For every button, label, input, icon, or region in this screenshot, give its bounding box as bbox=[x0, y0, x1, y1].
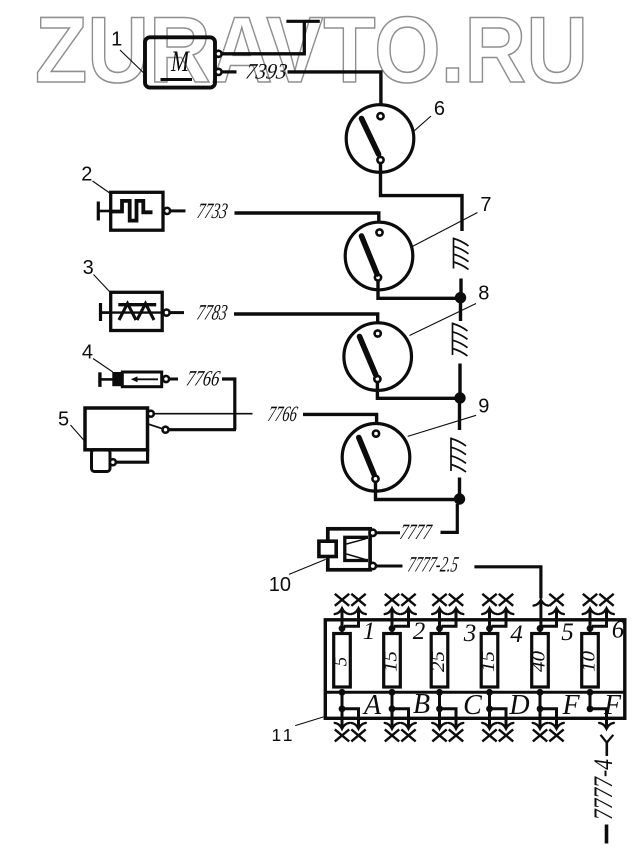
wire fuse F1 top left bbox=[341, 609, 344, 627]
arrow connector, fuse F1 top right bbox=[351, 608, 366, 614]
arrow connector, fuse F1 top left bbox=[335, 608, 350, 614]
arrow connector, fuse F1 bottom left bbox=[335, 723, 350, 729]
external wire marker X, fuse F2 top left bbox=[385, 594, 399, 606]
wire fuse F6 top left bbox=[589, 609, 592, 627]
component 3 left terminal bar bbox=[99, 303, 102, 321]
chassis ground symbol 1 bbox=[454, 238, 469, 270]
svg-text:1: 1 bbox=[111, 29, 122, 51]
external wire marker X, fuse F6 top right bbox=[599, 594, 613, 606]
wire from switch 8 to junction B bbox=[377, 382, 455, 398]
stub junction to fuse F6 bbox=[589, 628, 592, 634]
switch 8 lever bbox=[360, 337, 376, 376]
sensor U3 (component 3) box bbox=[111, 292, 163, 330]
external wire marker X, fuse F1 bottom left bbox=[335, 729, 349, 741]
stub junction to fuse F3 bbox=[438, 628, 441, 634]
lower junction fuse F3 bbox=[436, 705, 443, 712]
arrow connector, fuse F6 top right bbox=[599, 608, 614, 614]
svg-text:1 1: 1 1 bbox=[272, 725, 293, 745]
arrow connector, fuse F5 bottom left bbox=[533, 723, 548, 729]
wire 7777-2.5 to fuse box bbox=[474, 567, 541, 598]
external wire marker X, fuse F4 bottom left bbox=[482, 729, 496, 741]
junction above fuse F4 bbox=[486, 625, 493, 632]
arrow connector on fuse F5 left wire bbox=[534, 600, 549, 606]
fuse box (component 11) outline bbox=[325, 620, 625, 719]
wire 7777-4 stem bbox=[605, 743, 608, 756]
switch 6 bottom contact bbox=[377, 157, 383, 163]
svg-text:7: 7 bbox=[480, 194, 491, 216]
wire fuse F3 bottom drop bbox=[438, 692, 441, 709]
wire 7777-2.5 entering fuse F5 top left bbox=[539, 597, 542, 601]
relay/flasher U2 (component 2) box bbox=[111, 192, 163, 230]
external wire marker X, fuse F3 bottom left bbox=[432, 729, 446, 741]
switch 7 bottom contact bbox=[375, 274, 381, 280]
arrow connector, fuse F4 top left bbox=[482, 608, 497, 614]
arrow connector, fuse F4 top right bbox=[499, 608, 514, 614]
external wire marker X, fuse F4 top right bbox=[499, 594, 513, 606]
svg-text:5: 5 bbox=[58, 408, 69, 430]
svg-text:3: 3 bbox=[83, 257, 94, 279]
svg-text:6: 6 bbox=[612, 617, 625, 644]
leader line for label 8 bbox=[410, 304, 477, 336]
svg-text:10: 10 bbox=[269, 574, 291, 596]
component 5 lower box bbox=[92, 450, 111, 472]
external wire marker X, fuse F6 top left bbox=[583, 594, 597, 606]
external wire marker X, fuse F5 bottom left bbox=[533, 729, 547, 741]
stub junction to fuse F4 bbox=[488, 628, 491, 634]
svg-text:1: 1 bbox=[363, 618, 376, 645]
external wire marker X, fuse F2 bottom left bbox=[385, 729, 399, 741]
component 4 left lead bbox=[100, 378, 113, 381]
motor terminal pin top bbox=[215, 51, 221, 57]
wire 7393 from motor bottom terminal bbox=[222, 70, 237, 73]
component 5 terminal pin 2 bbox=[163, 427, 169, 433]
arrow connector, fuse F2 top right bbox=[401, 608, 416, 614]
component 2 heating element meander bbox=[111, 201, 153, 221]
svg-text:7777-2.5: 7777-2.5 bbox=[406, 551, 460, 576]
wire fuse F2 top left bbox=[391, 609, 394, 627]
svg-text:7777: 7777 bbox=[398, 519, 434, 544]
external wire marker X, fuse F1 top right bbox=[351, 594, 365, 606]
arrow connector, fuse F6 top left bbox=[583, 608, 598, 614]
component 4 left terminal bar bbox=[98, 372, 101, 387]
T terminal bar (node) bbox=[286, 20, 319, 23]
leader line for label 1 bbox=[120, 50, 144, 74]
wire fuse F3 bottom right (step) bbox=[440, 709, 457, 729]
wire fuse F1 bottom left bbox=[341, 709, 344, 729]
wire 7766 from component 4 down to component 5 output bbox=[222, 379, 235, 430]
wire fuse F4 top left bbox=[488, 609, 491, 627]
fuse box bottom bus wire bbox=[327, 691, 624, 694]
svg-text:15: 15 bbox=[478, 651, 499, 672]
svg-text:2: 2 bbox=[81, 164, 92, 186]
wire fuse F6 bottom drop bbox=[589, 692, 592, 709]
component 3 left lead bbox=[101, 311, 111, 314]
component 10 terminal pin 1 bbox=[370, 530, 376, 536]
wire fuse F5 bottom left bbox=[539, 709, 542, 729]
junction below fuse F2 on bus bbox=[389, 689, 396, 696]
component 2 left terminal bar bbox=[97, 202, 100, 221]
fuse F5 body, rating 40A bbox=[529, 634, 550, 688]
component 5 terminal pin 3 bbox=[110, 459, 116, 465]
svg-text:7733: 7733 bbox=[195, 198, 229, 223]
wire fuse F2 bottom left bbox=[391, 709, 394, 729]
wire fuse F6 bottom right (step) bbox=[590, 709, 607, 729]
junction node A bbox=[455, 292, 466, 303]
wire from switch 9 to junction C bbox=[376, 482, 455, 500]
svg-text:7766: 7766 bbox=[185, 366, 222, 391]
wire 7777-2.5 lead from component 10 bbox=[376, 565, 402, 568]
leader line for label 9 bbox=[408, 415, 476, 436]
chassis ground symbol 3 bbox=[451, 438, 466, 473]
switch 8 top contact bbox=[375, 330, 381, 336]
external wire marker X, fuse F3 bottom right bbox=[449, 729, 463, 741]
wire fuse F3 top left bbox=[438, 609, 441, 627]
wire stub to junction B bbox=[458, 364, 461, 394]
svg-text:ZURAVTO.RU: ZURAVTO.RU bbox=[35, 0, 588, 102]
wire loop from terminal 3 to main box bbox=[116, 450, 148, 462]
terminal 2 link bbox=[148, 424, 163, 429]
arrow connector, fuse F3 bottom right bbox=[449, 723, 464, 729]
junction node C bbox=[454, 493, 465, 504]
arrow connector, fuse F2 bottom right bbox=[401, 723, 416, 729]
junction below fuse F5 on bus bbox=[537, 689, 544, 696]
motor U1 (component 1) bbox=[145, 37, 215, 87]
fuse F4 body, rating 15A bbox=[478, 634, 499, 688]
component 4 output lead bbox=[169, 378, 178, 381]
switch 7 lever bbox=[362, 236, 378, 274]
leader line for label 7 bbox=[413, 213, 478, 247]
svg-text:4: 4 bbox=[82, 341, 93, 363]
wire stub from junction A bbox=[459, 302, 462, 321]
junction below fuse F1 on bus bbox=[339, 689, 346, 696]
leader line for label 3 bbox=[94, 275, 111, 293]
svg-text:C: C bbox=[463, 690, 482, 721]
arrow connector, fuse F2 bottom left bbox=[385, 723, 400, 729]
svg-text:7777-4: 7777-4 bbox=[589, 759, 618, 820]
junction above fuse F6 bbox=[587, 625, 594, 632]
thin wire from terminal 1 bbox=[154, 413, 253, 415]
wire 7733 to switch 7 bbox=[235, 213, 379, 230]
wire 7777 lead to component 10 bbox=[376, 531, 400, 534]
arrow connector, fuse F2 top left bbox=[385, 608, 400, 614]
svg-text:M: M bbox=[170, 45, 190, 78]
component 2 output lead bbox=[170, 209, 185, 212]
leader line for label 2 bbox=[93, 181, 111, 194]
wire stub to junction A bbox=[459, 279, 462, 295]
svg-text:5: 5 bbox=[331, 657, 352, 667]
svg-text:15: 15 bbox=[381, 651, 402, 672]
fuse F1 body, rating 5A bbox=[331, 634, 352, 688]
wire fuse F4 top right (step) bbox=[492, 609, 507, 627]
leader line for label 6 bbox=[414, 116, 432, 132]
junction above fuse F3 bbox=[436, 625, 443, 632]
arrow connector, fuse F3 bottom left bbox=[432, 723, 447, 729]
svg-text:25: 25 bbox=[428, 651, 449, 672]
component 2 left lead bbox=[98, 210, 110, 213]
external wire marker X, fuse F5 bottom right bbox=[549, 729, 563, 741]
switch 9 bottom contact bbox=[372, 476, 378, 482]
wire fuse F3 top right (step) bbox=[442, 609, 457, 627]
motor terminal pin bottom bbox=[215, 69, 221, 75]
component 3 right terminal pin bbox=[163, 310, 169, 316]
wire fuse F3 bottom left bbox=[438, 709, 441, 729]
svg-text:A: A bbox=[362, 690, 382, 721]
wire fuse F1 top right (step) bbox=[344, 609, 359, 627]
switch S6 (component 6) body bbox=[346, 105, 414, 173]
chassis ground symbol 2 bbox=[453, 323, 468, 357]
switch S9 (component 9) body bbox=[342, 424, 410, 492]
stub junction to fuse F2 bbox=[391, 628, 394, 634]
connector U10 (component 10) body bbox=[319, 529, 370, 570]
junction above fuse F1 bbox=[339, 625, 346, 632]
wire fuse F2 bottom right (step) bbox=[392, 709, 409, 729]
component 10 terminal pin 2 bbox=[370, 563, 376, 569]
svg-text:D: D bbox=[508, 690, 529, 721]
switch 6 top contact bbox=[377, 113, 383, 119]
external wire marker X, fuse F2 top right bbox=[401, 594, 415, 606]
lower junction fuse F5 bbox=[537, 705, 544, 712]
switch 6 lever bbox=[362, 119, 379, 155]
component 5 terminal pin 1 bbox=[148, 411, 154, 417]
external wire marker X, fuse F4 bottom right bbox=[499, 729, 513, 741]
wire from junction C down to wire 7777 bbox=[441, 504, 458, 532]
lower junction fuse F6 bbox=[587, 705, 594, 712]
junction below fuse F3 on bus bbox=[436, 689, 443, 696]
svg-text:7393: 7393 bbox=[244, 59, 289, 84]
svg-text:9: 9 bbox=[478, 396, 489, 418]
junction below fuse F6 on bus bbox=[587, 689, 594, 696]
junction above fuse F2 bbox=[389, 625, 396, 632]
junction below fuse F4 on bus bbox=[486, 689, 493, 696]
wire from terminal 2 to component 4 wire bbox=[169, 428, 236, 431]
svg-text:10: 10 bbox=[579, 650, 600, 672]
switch 8 bottom contact bbox=[374, 376, 380, 382]
svg-text:7783: 7783 bbox=[195, 300, 229, 325]
wire 7777-4 continuation dash bbox=[605, 825, 609, 844]
svg-text:2: 2 bbox=[413, 618, 426, 645]
wire 7393 continues to switch 6 bbox=[288, 72, 381, 113]
external wire marker X, fuse F2 bottom right bbox=[401, 729, 415, 741]
wire stub to junction C bbox=[458, 478, 461, 495]
junction node B bbox=[454, 392, 465, 403]
wire fuse F1 bottom right (step) bbox=[342, 709, 359, 729]
component 3 output lead bbox=[170, 311, 184, 314]
external wire marker X, fuse F1 top left bbox=[335, 594, 349, 606]
component 4 right terminal pin bbox=[163, 376, 169, 382]
wire fuse F4 bottom left bbox=[488, 709, 491, 729]
relay U5 (component 5) main box bbox=[85, 408, 148, 450]
component 2 right terminal pin bbox=[164, 208, 170, 214]
svg-text:8: 8 bbox=[478, 282, 489, 304]
component 3 element symbol bbox=[101, 304, 164, 321]
switch S8 (component 8) body bbox=[344, 323, 412, 391]
svg-text:3: 3 bbox=[463, 620, 477, 647]
stub junction to fuse F1 bbox=[341, 628, 344, 634]
stub junction to fuse F5 bbox=[539, 628, 542, 634]
leader line for label 10 bbox=[289, 559, 326, 574]
svg-text:6: 6 bbox=[434, 98, 445, 120]
wire 7766 to switch 9 bbox=[303, 414, 377, 430]
fuse/lighter U4 (component 4) bbox=[112, 372, 161, 387]
switch S7 (component 7) body bbox=[345, 222, 413, 290]
wire fuse F2 bottom drop bbox=[391, 692, 394, 709]
wire stub from junction B bbox=[458, 403, 461, 430]
wire from motor top terminal bbox=[222, 21, 305, 54]
svg-text:40: 40 bbox=[529, 650, 550, 672]
svg-text:F: F bbox=[561, 690, 580, 721]
leader line for label 11 bbox=[295, 717, 323, 726]
wire 7783 to switch 8 bbox=[234, 314, 378, 330]
svg-text:B: B bbox=[413, 689, 430, 720]
arrow connector, fuse F1 bottom right bbox=[351, 723, 366, 729]
leader line for label 4 bbox=[93, 359, 113, 373]
external wire marker X, fuse F1 bottom right bbox=[351, 729, 365, 741]
wire fuse F5 top right (step) bbox=[542, 609, 557, 627]
arrow connector, fuse F4 bottom right bbox=[499, 723, 514, 729]
fuse F2 body, rating 15A bbox=[381, 634, 402, 688]
svg-text:5: 5 bbox=[561, 619, 574, 646]
wire fuse F6 top right (step) bbox=[592, 609, 607, 627]
svg-text:4: 4 bbox=[510, 621, 523, 648]
fuse F3 body, rating 25A bbox=[428, 634, 449, 688]
arrow connector, fuse F3 top right bbox=[449, 608, 464, 614]
lower junction fuse F4 bbox=[486, 705, 493, 712]
arrow connector, fuse F6 bottom right bbox=[599, 723, 614, 729]
leader line for label 5 bbox=[71, 425, 86, 442]
switch 9 top contact bbox=[373, 431, 379, 437]
svg-text:F: F bbox=[603, 690, 622, 721]
wire fuse F4 bottom drop bbox=[488, 692, 491, 709]
wire from switch 7 to junction A bbox=[378, 281, 456, 299]
junction above fuse F5 bbox=[537, 625, 544, 632]
external wire marker X, fuse F3 top left bbox=[432, 594, 446, 606]
external wire marker X, fuse F4 top left bbox=[482, 594, 496, 606]
wire fuse F1 bottom drop bbox=[341, 692, 344, 709]
wire from switch 6 to chassis bbox=[381, 163, 463, 231]
lower junction fuse F1 bbox=[339, 705, 346, 712]
external wire marker X, fuse F3 top right bbox=[449, 594, 463, 606]
external wire marker X, fuse F5 top right bbox=[549, 594, 563, 606]
arrow connector, fuse F4 bottom left bbox=[482, 723, 497, 729]
wire fuse F5 bottom drop bbox=[539, 692, 542, 709]
arrow connector, fuse F5 bottom right bbox=[549, 723, 564, 729]
wire fuse F4 bottom right (step) bbox=[490, 709, 507, 729]
wire 7777-4 fork connector bbox=[601, 735, 614, 743]
arrow connector, fuse F3 top left bbox=[432, 608, 447, 614]
wire fuse F5 bottom right (step) bbox=[540, 709, 557, 729]
fuse F6 body, rating 10A bbox=[579, 634, 600, 688]
lower junction fuse F2 bbox=[389, 705, 396, 712]
switch 7 top contact bbox=[376, 229, 382, 235]
switch 9 lever bbox=[359, 438, 374, 475]
svg-text:7766: 7766 bbox=[266, 401, 299, 426]
wire fuse F2 top right (step) bbox=[394, 609, 409, 627]
arrow connector, fuse F5 top right bbox=[549, 608, 564, 614]
